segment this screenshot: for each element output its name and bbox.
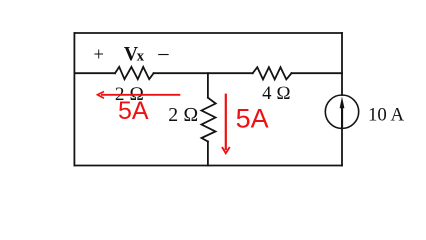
wire top branch	[74, 32, 342, 34]
svg-text:x: x	[137, 49, 145, 65]
wire left vertical	[73, 33, 75, 166]
wire right vertical upper	[341, 33, 343, 95]
wire middle branch lower	[207, 142, 209, 166]
svg-text:−: −	[157, 42, 170, 67]
resistor 2ohm vertical	[202, 98, 216, 142]
current source arrow	[340, 97, 345, 128]
wire main horizontal middle segment	[154, 72, 253, 74]
wire right vertical lower	[341, 128, 343, 165]
svg-text:10 A: 10 A	[368, 105, 404, 126]
wire middle branch upper	[207, 73, 209, 98]
wire main horizontal left segment	[74, 72, 115, 74]
resistor 4ohm horizontal	[253, 67, 292, 79]
wire main horizontal right segment	[292, 72, 343, 74]
svg-text:5A: 5A	[236, 104, 269, 134]
svg-text:4 Ω: 4 Ω	[262, 83, 291, 104]
svg-text:2 Ω: 2 Ω	[168, 104, 198, 126]
red current arrow down (5A through middle 2ohm)	[222, 94, 230, 154]
wire bottom	[74, 165, 342, 167]
svg-text:+: +	[93, 45, 103, 65]
current source U1 circle	[325, 95, 358, 128]
resistor 2ohm horizontal	[115, 67, 154, 79]
svg-text:5A: 5A	[118, 97, 149, 125]
red current arrow left (5A through 2ohm)	[98, 92, 181, 99]
